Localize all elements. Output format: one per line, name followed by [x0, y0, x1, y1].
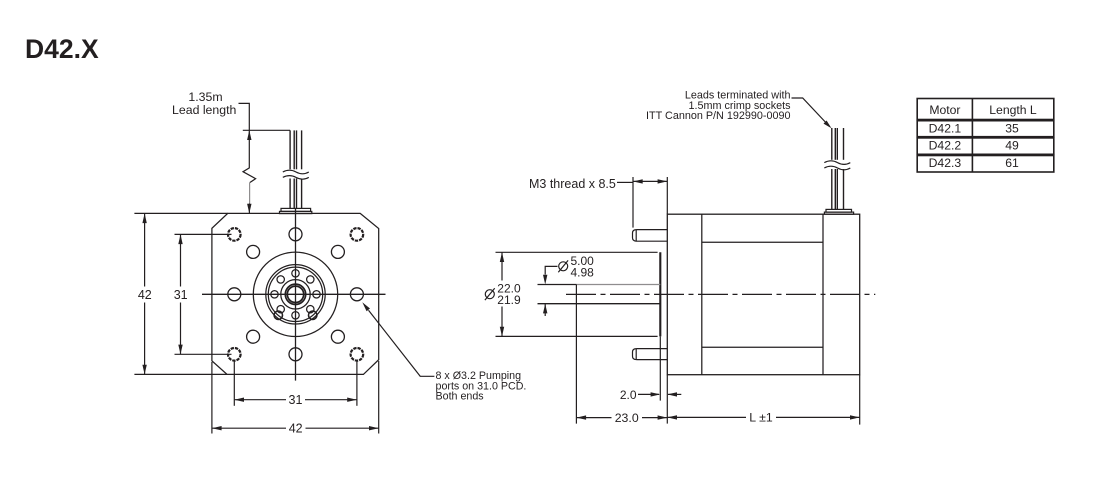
svg-text:M3 thread x 8.5: M3 thread x 8.5: [529, 177, 616, 191]
table: row 2 box: [917, 138, 1054, 154]
front view: mounting hole top-left: [228, 228, 241, 241]
front view: lead wires break symbol: [283, 169, 309, 179]
side view: mounting face extension line below body: [666, 375, 668, 424]
front view: lead grommet: [280, 208, 312, 213]
table: row 1 texts: [929, 122, 1019, 136]
table: row 2 texts: [929, 139, 1019, 153]
side view: M3 stud top: [633, 230, 668, 242]
table: header texts: [929, 103, 1037, 117]
dimension 42 vertical: arrowheads: [142, 213, 146, 374]
dimension 23.0: arrowheads: [576, 415, 667, 419]
svg-text:ITT Cannon P/N 192990-0090: ITT Cannon P/N 192990-0090: [646, 110, 790, 122]
svg-text:D42.X: D42.X: [25, 34, 99, 64]
svg-text:23.0: 23.0: [615, 411, 639, 425]
svg-text:31: 31: [174, 288, 188, 302]
dimension boss diameter: arrowheads: [500, 252, 504, 336]
svg-text:2.0: 2.0: [620, 388, 637, 402]
front view: bearing retainer rivets: [274, 311, 317, 319]
side view: lead grommet: [824, 209, 853, 214]
svg-text:42: 42: [138, 288, 152, 302]
dimension 42 vertical: dimension line: [144, 213, 146, 374]
front view: lead wires bundle: [290, 130, 302, 208]
front view: bearing outer race inner circle: [268, 267, 322, 321]
svg-text:D42.1: D42.1: [929, 122, 962, 136]
side view: stator bottom line: [702, 346, 823, 348]
dimension L±1: arrowheads: [667, 415, 859, 419]
side view: shaft top edge: [576, 284, 660, 286]
svg-text:Motor: Motor: [929, 103, 960, 117]
dimension boss diameter: phi symbol: [485, 288, 495, 300]
front view: mounting hole bottom-left: [228, 348, 241, 361]
side view: stator top line: [702, 241, 823, 243]
front view: bearing inner race: [281, 280, 310, 309]
front view: pilot boss circle: [253, 252, 337, 336]
dimension 31 vertical: dimension line: [180, 234, 182, 354]
svg-text:D42.3: D42.3: [929, 156, 962, 170]
callout pumping ports: arrowhead: [362, 302, 370, 311]
side view: pilot boss face: [659, 252, 661, 336]
dimension 42 horizontal: arrowheads: [212, 426, 379, 430]
front view: shaft bore outer: [285, 284, 305, 304]
side view: shaft end / 23.0 extension line: [575, 285, 577, 424]
callout leads terminated: arrowhead: [824, 121, 832, 129]
front view: pumping port lower-left: [247, 330, 260, 343]
svg-text:Length L: Length L: [989, 103, 1037, 117]
front view: mounting hole bottom-right: [351, 348, 364, 361]
svg-text:21.9: 21.9: [497, 293, 521, 307]
svg-text:4.98: 4.98: [571, 265, 595, 279]
svg-text:31: 31: [289, 393, 303, 407]
dimension boss diameter 22.0/21.9: extension lines: [496, 252, 658, 336]
front view: pumping port bottom: [289, 348, 302, 361]
dimension M3 thread x 8.5: leader: [617, 181, 633, 183]
dimension 1.35m lead length: arrowheads: [247, 130, 251, 213]
dimension shaft diameter: arrowheads: [543, 275, 547, 314]
svg-text:49: 49: [1005, 139, 1019, 153]
table: row 1 box: [917, 121, 1054, 137]
front view: pumping port right: [350, 288, 363, 301]
table: row 1 column divider: [971, 121, 973, 137]
dimension 2.0: dimension lines: [638, 393, 681, 395]
dimension M3 thread x 8.5: extension lines: [633, 177, 667, 228]
dimension M3 thread x 8.5: dimension line: [633, 180, 667, 182]
side view: M3 stud bottom: [633, 349, 668, 360]
side view: rear end cap line: [822, 214, 824, 375]
front view: bearing balls: [271, 270, 320, 319]
dimension 42 vertical: extension lines: [134, 213, 227, 374]
front view: pumping port left: [228, 288, 241, 301]
side view: lead wires break symbol: [824, 160, 850, 170]
side view: shaft bottom edge: [538, 303, 661, 305]
svg-text:D42.2: D42.2: [929, 139, 962, 153]
side view: shaft diameter extension line top: [538, 284, 577, 286]
svg-text:42: 42: [289, 422, 303, 436]
callout pumping ports: leader line: [369, 310, 435, 376]
table: row 3 texts: [929, 156, 1019, 170]
front view: mounting hole top-right: [351, 228, 364, 241]
dimension 2.0: arrowheads: [651, 392, 677, 396]
table: row 2 column divider: [971, 138, 973, 154]
front view: flange outline: [212, 213, 379, 374]
dimension shaft diameter: phi symbol: [558, 260, 568, 272]
dimension 2.0: extension line: [659, 336, 661, 400]
side view: lead wires bundle: [832, 128, 844, 209]
dimension 1.35m lead length: leader and extension line: [239, 103, 291, 130]
callout pumping ports: text: [436, 370, 527, 402]
svg-text:Both ends: Both ends: [436, 391, 484, 403]
dimension 42 horizontal: extension lines: [212, 361, 379, 434]
front view: centerlines crosshair: [202, 209, 386, 381]
dimension 42 horizontal: dimension line: [212, 427, 379, 429]
svg-text:Lead length: Lead length: [172, 103, 236, 117]
side view: front end cap line: [701, 214, 703, 375]
svg-text:35: 35: [1005, 122, 1019, 136]
callout leads terminated: leader: [792, 98, 826, 123]
dimension M3 thread x 8.5: arrowheads: [633, 179, 667, 183]
front view: pumping port upper-right: [331, 245, 344, 258]
side view: centerline: [566, 293, 875, 295]
table: row 3 column divider: [971, 156, 973, 173]
dimension L±1: dimension line: [667, 416, 859, 418]
dimension 31 horizontal: extension lines: [234, 361, 357, 406]
dimension 1.35m lead length: text: [172, 90, 236, 117]
front view: pumping port lower-right: [331, 330, 344, 343]
callout leads terminated: text: [646, 90, 791, 123]
svg-text:L ±1: L ±1: [749, 411, 773, 425]
front view: shaft bore inner: [287, 286, 303, 302]
dimension 1.35m lead length: dimension line with break: [243, 130, 256, 213]
table: header column divider: [971, 99, 973, 120]
dimension shaft diameter: lower arrow line: [544, 304, 546, 316]
svg-text:61: 61: [1005, 156, 1019, 170]
front view: pumping port upper-left: [247, 245, 260, 258]
dimension 31 horizontal: arrowheads: [234, 398, 357, 402]
dimension shaft diameter 5.00/4.98: texts: [571, 254, 595, 280]
dimension 31 vertical: extension lines: [175, 234, 232, 354]
front view: bearing outer race outer circle: [266, 265, 325, 324]
table: header row box: [917, 99, 1054, 120]
table: row 3 box: [917, 156, 1054, 173]
dimension 31 vertical: arrowheads: [178, 234, 182, 354]
dimension 23.0: dimension line: [577, 417, 667, 419]
front view: pumping port top: [289, 228, 302, 241]
dimension 31 horizontal: dimension line: [234, 399, 357, 401]
side view: rear face extension line below body: [859, 375, 861, 425]
side view: body outline: [667, 214, 859, 375]
dimension shaft diameter: leader: [545, 266, 557, 274]
dimension boss diameter: dimension line: [501, 252, 503, 336]
dimension boss diameter: texts: [497, 281, 521, 307]
